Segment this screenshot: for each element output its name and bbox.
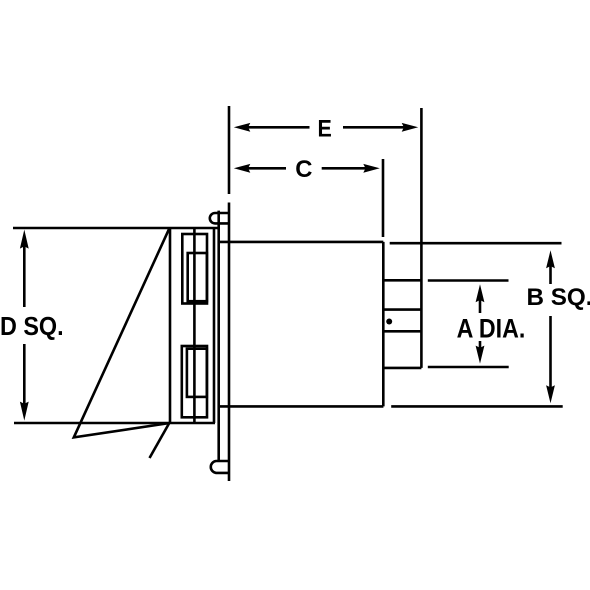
svg-text:B SQ.: B SQ. — [527, 284, 590, 311]
svg-text:D SQ.: D SQ. — [0, 311, 64, 341]
svg-text:A DIA.: A DIA. — [457, 314, 526, 344]
svg-text:C: C — [295, 156, 312, 183]
svg-text:E: E — [318, 115, 332, 142]
